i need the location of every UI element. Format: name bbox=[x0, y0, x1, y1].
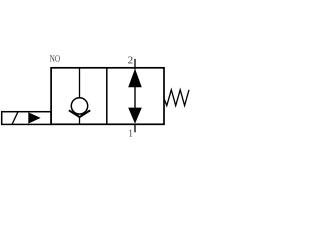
solenoid box bbox=[2, 112, 51, 125]
wire: flow line from top edge to ball bbox=[79, 68, 81, 98]
port 1 label bbox=[129, 130, 132, 137]
solenoid slash bbox=[12, 112, 18, 125]
position divider bbox=[106, 68, 108, 125]
flow path arrowhead bottom bbox=[128, 108, 142, 124]
port 2 line bbox=[134, 59, 136, 70]
solenoid arrow bbox=[28, 112, 40, 123]
spring bbox=[164, 90, 189, 106]
valve seat bbox=[69, 110, 90, 117]
valve body envelope bbox=[51, 68, 164, 125]
ball C (check element) bbox=[71, 98, 87, 114]
label NO bbox=[50, 55, 60, 62]
wire: seat apex to bottom edge bbox=[79, 117, 81, 125]
port 1 line bbox=[134, 124, 136, 132]
flow path arrowhead top bbox=[128, 69, 142, 88]
port 2 label bbox=[128, 57, 132, 64]
flow path arrow shaft bbox=[134, 85, 136, 109]
